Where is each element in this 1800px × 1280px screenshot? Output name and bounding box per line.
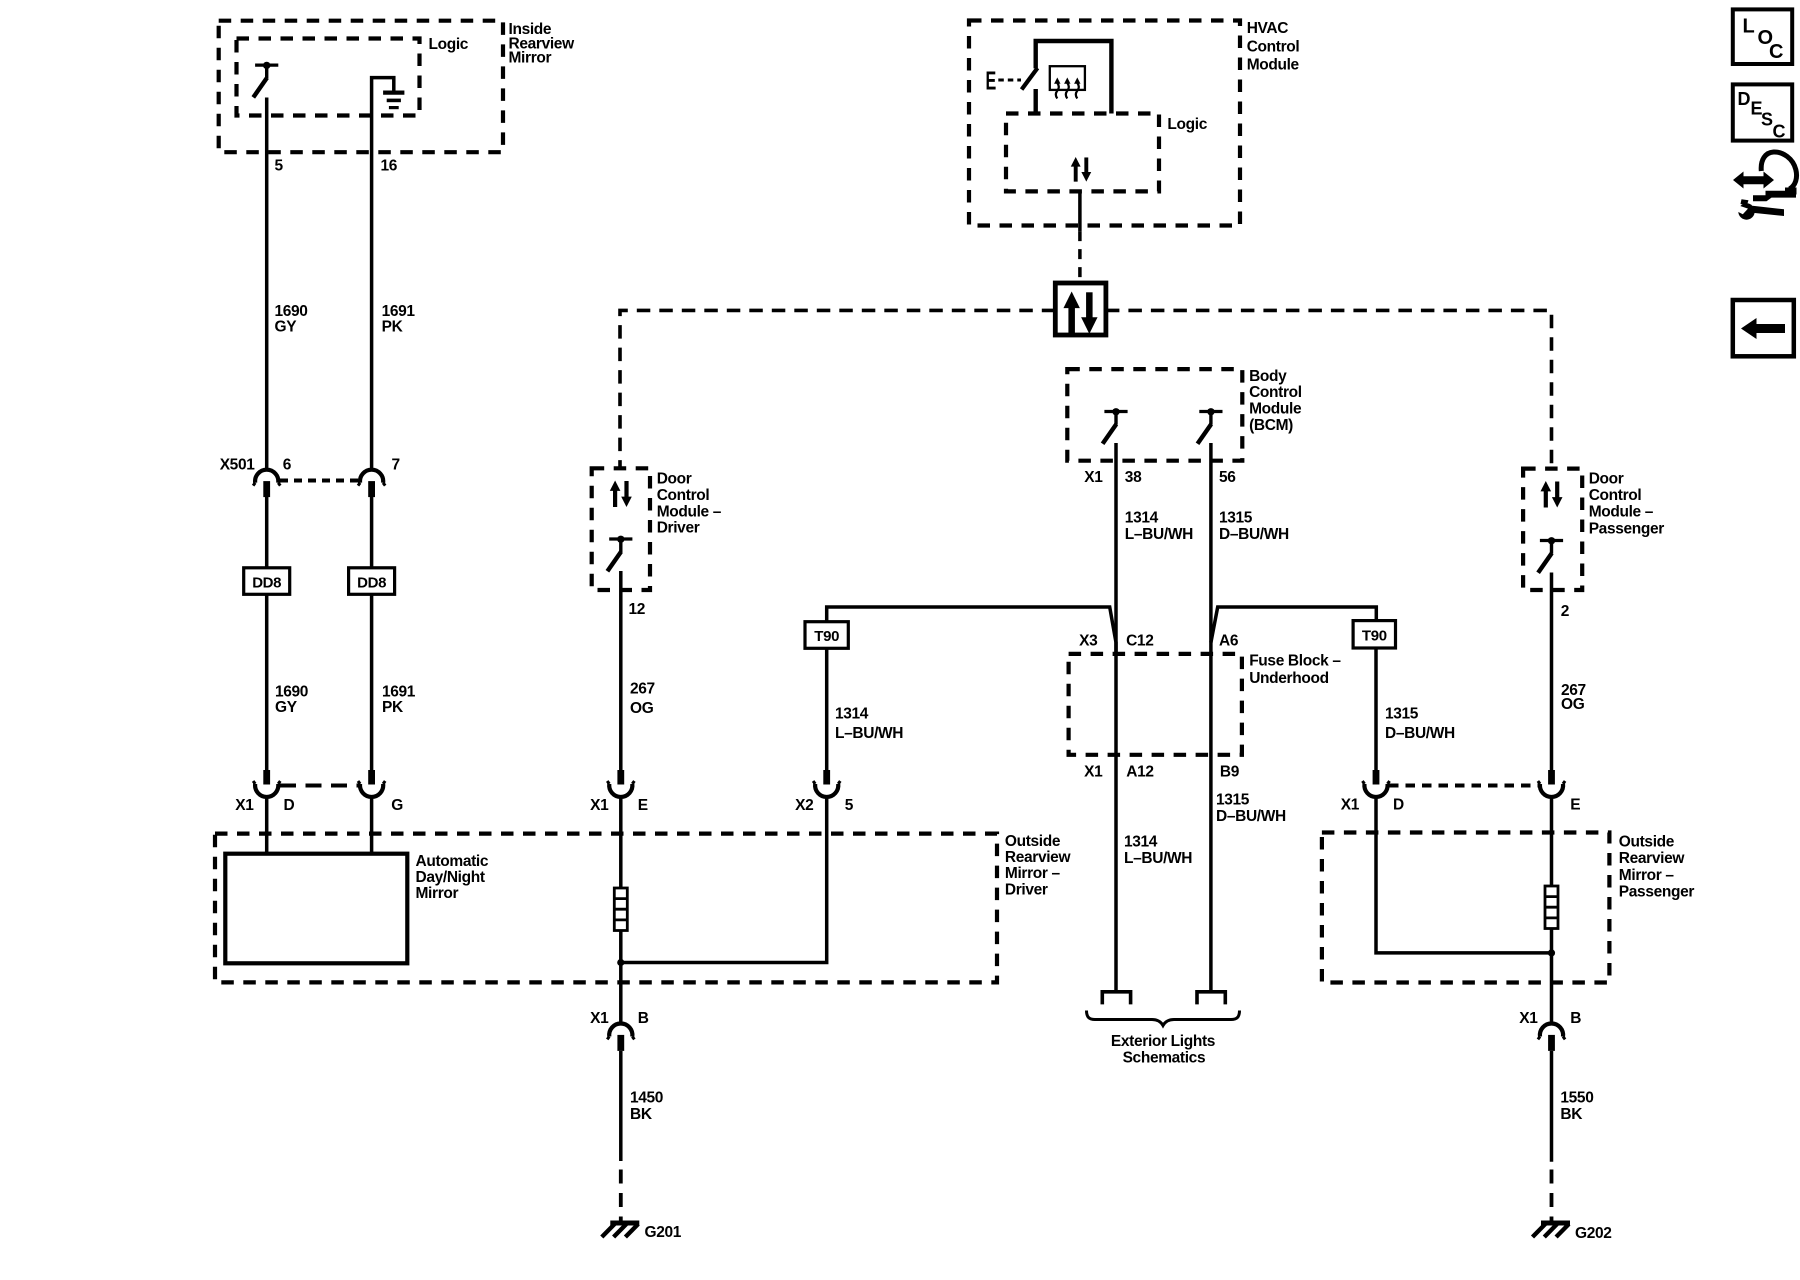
- svg-text:B9: B9: [1220, 764, 1240, 781]
- svg-text:D–BU/WH: D–BU/WH: [1385, 725, 1455, 742]
- dashed link between passenger X1 D and E: [1389, 784, 1538, 788]
- svg-text:GY: GY: [275, 699, 298, 716]
- svg-text:(BCM): (BCM): [1249, 417, 1293, 434]
- heater element (mirror driver): [614, 888, 627, 931]
- svg-text:Exterior Lights: Exterior Lights: [1111, 1033, 1215, 1050]
- svg-text:L–BU/WH: L–BU/WH: [1124, 850, 1192, 867]
- svg-text:267: 267: [630, 680, 655, 697]
- dashed serial data bus (left branch): [620, 310, 1055, 468]
- wire: bus from fuse block A6 to T90 passenger: [1211, 607, 1376, 643]
- switch inside HVAC + feed loop: [1022, 41, 1112, 114]
- switch (DCM passenger): [1538, 537, 1563, 573]
- pin 12 label: [629, 601, 646, 618]
- pin 2 label (DCM passenger): [1561, 603, 1569, 620]
- svg-text:E: E: [986, 65, 997, 95]
- wire label 1314 L-BU/WH (below fuse block): [1124, 834, 1192, 868]
- svg-text:Mirror –: Mirror –: [1619, 867, 1675, 884]
- connector X1-D (automatic mirror): [235, 770, 294, 814]
- heated grid icon (HVAC): [1050, 66, 1085, 98]
- svg-text:Underhood: Underhood: [1249, 670, 1329, 687]
- connector X501 pin 7: [358, 457, 400, 498]
- svg-text:Body: Body: [1249, 368, 1287, 385]
- svg-text:1314: 1314: [835, 706, 869, 723]
- svg-text:X1: X1: [1341, 797, 1360, 814]
- pin label E (HVAC internal): [986, 65, 997, 95]
- svg-text:1315: 1315: [1219, 510, 1253, 527]
- inline connector T90 (driver): [805, 622, 848, 649]
- wire: X1-D passenger into mirror to junction: [1376, 797, 1552, 953]
- svg-text:D: D: [1393, 797, 1404, 814]
- svg-text:Rearview: Rearview: [1619, 850, 1686, 867]
- component: Automatic Day/Night Mirror: [225, 853, 489, 964]
- dashed link between X501 terminals: [280, 479, 359, 483]
- svg-text:38: 38: [1125, 469, 1142, 486]
- svg-text:16: 16: [381, 158, 398, 175]
- wire: circuit 267 OG passenger: [1550, 573, 1554, 771]
- svg-text:Passenger: Passenger: [1619, 883, 1695, 900]
- svg-text:2: 2: [1561, 603, 1569, 620]
- svg-text:OG: OG: [1561, 696, 1585, 713]
- svg-text:Module: Module: [1247, 57, 1300, 74]
- connector X2-5 (mirror driver): [795, 770, 854, 814]
- svg-text:Day/Night: Day/Night: [416, 869, 485, 886]
- wire label 1315 D-BU/WH (below fuse block): [1216, 792, 1286, 826]
- wire: circuit 267 OG from DCM driver pin 12: [619, 571, 623, 770]
- ground G201: [602, 1223, 682, 1241]
- svg-text:X1: X1: [1084, 469, 1103, 486]
- wire label 1315 D-BU/WH (passenger branch): [1385, 706, 1455, 743]
- svg-text:Driver: Driver: [657, 520, 700, 537]
- svg-text:A12: A12: [1126, 764, 1153, 781]
- svg-text:Mirror: Mirror: [509, 50, 552, 67]
- wire label 1691 PK (upper): [382, 303, 416, 336]
- wire: circuit 1690 from IRM pin 5 to connector X501-6: [265, 98, 269, 469]
- svg-text:Rearview: Rearview: [1005, 849, 1072, 866]
- svg-text:T90: T90: [814, 628, 839, 645]
- svg-text:HVAC: HVAC: [1247, 20, 1289, 37]
- wire label 267 OG (passenger): [1561, 682, 1586, 713]
- pin labels X1 38 56 (BCM): [1084, 469, 1236, 486]
- module box: outside rearview mirror driver / automatic day-night mirror: [215, 833, 1071, 983]
- svg-text:X1: X1: [1084, 764, 1103, 781]
- connector X1-B (mirror driver): [590, 1010, 649, 1051]
- wire label 1690 GY (lower): [275, 684, 308, 717]
- svg-text:Driver: Driver: [1005, 881, 1048, 898]
- serial data icon (DCM driver): [610, 481, 632, 508]
- svg-text:DD8: DD8: [357, 574, 386, 591]
- wire: X1-D into mirror: [265, 797, 269, 853]
- svg-text:G: G: [391, 797, 403, 814]
- wire label 1314 L-BU/WH (BCM): [1125, 510, 1193, 544]
- svg-text:C: C: [1773, 122, 1786, 142]
- back arrow reference box: [1733, 300, 1794, 356]
- dashed ground lead (driver): [619, 1170, 623, 1222]
- svg-text:Automatic: Automatic: [416, 853, 489, 870]
- svg-text:Control: Control: [1589, 487, 1642, 504]
- connector X1-B (mirror passenger): [1519, 1010, 1581, 1051]
- svg-text:C12: C12: [1126, 633, 1153, 650]
- svg-text:Mirror: Mirror: [416, 885, 459, 902]
- svg-text:L: L: [1743, 16, 1755, 38]
- svg-text:X3: X3: [1079, 633, 1098, 650]
- svg-text:PK: PK: [382, 699, 404, 716]
- pin 5 label (IRM): [275, 158, 284, 175]
- serial data link box: [1055, 283, 1106, 335]
- connector X1-D (mirror passenger): [1341, 770, 1404, 814]
- wire: T90 passenger to X1-D: [1374, 648, 1378, 770]
- logic box (IRM): [237, 36, 469, 116]
- wire label 267 OG (driver): [630, 680, 655, 717]
- svg-text:5: 5: [275, 158, 284, 175]
- svg-text:1450: 1450: [630, 1089, 663, 1106]
- svg-text:1550: 1550: [1560, 1089, 1593, 1106]
- icon: data exchange arrow and wrench: [1733, 152, 1797, 220]
- inline connector DD8 (right): [349, 568, 395, 595]
- svg-text:Module: Module: [1249, 401, 1302, 418]
- svg-text:PK: PK: [382, 319, 404, 336]
- wire: junction to X2-5 branch: [621, 797, 827, 962]
- svg-text:C: C: [1769, 41, 1783, 63]
- svg-text:BK: BK: [630, 1106, 653, 1123]
- svg-text:B: B: [1570, 1010, 1581, 1027]
- svg-text:1690: 1690: [275, 684, 308, 701]
- svg-text:OG: OG: [630, 700, 654, 717]
- wire: 1691 between X501-7 and DD8: [370, 497, 374, 770]
- connector X1-G (automatic mirror): [358, 770, 403, 814]
- svg-text:X501: X501: [220, 457, 256, 474]
- DESC reference box: [1733, 84, 1792, 141]
- wire: circuit 1691 from IRM internal ground to connector X501-7: [372, 78, 394, 469]
- wire label 1315 D-BU/WH (BCM): [1219, 510, 1289, 544]
- svg-text:56: 56: [1219, 469, 1236, 486]
- svg-text:Control: Control: [1247, 38, 1300, 55]
- off-page connector (1314): [1102, 992, 1130, 1005]
- svg-text:E: E: [1570, 797, 1580, 814]
- serial data icon inside HVAC logic: [1071, 157, 1091, 182]
- svg-text:1314: 1314: [1125, 510, 1159, 527]
- pin 16 label (IRM): [381, 158, 398, 175]
- svg-text:X1: X1: [235, 797, 254, 814]
- connector X1-E (mirror driver): [590, 770, 648, 814]
- svg-text:1315: 1315: [1216, 792, 1250, 809]
- heater element (mirror passenger): [1545, 886, 1558, 929]
- dashed serial data bus (right branch): [1106, 310, 1552, 468]
- svg-text:L–BU/WH: L–BU/WH: [1125, 526, 1193, 543]
- serial data icon (DCM passenger): [1541, 481, 1563, 508]
- pin labels X1 A12 B9 (fuse block bottom): [1084, 764, 1240, 781]
- svg-text:12: 12: [629, 601, 646, 618]
- svg-text:Outside: Outside: [1619, 833, 1675, 850]
- svg-text:Module –: Module –: [1589, 503, 1654, 520]
- module box: Door Control Module - Driver: [592, 468, 722, 590]
- wire: X1-G into mirror: [370, 797, 374, 853]
- wire: element to junction to X1-B passenger: [1550, 929, 1554, 1023]
- svg-text:Outside: Outside: [1005, 833, 1061, 850]
- svg-text:Module –: Module –: [657, 503, 722, 520]
- svg-text:Door: Door: [1589, 471, 1624, 488]
- module box: Body Control Module (BCM): [1067, 368, 1302, 461]
- svg-text:Schematics: Schematics: [1123, 1050, 1206, 1067]
- svg-text:1690: 1690: [275, 303, 308, 320]
- module box: Outside Rearview Mirror - Passenger: [1322, 833, 1694, 983]
- switch (BCM right): [1198, 408, 1223, 444]
- logic box (HVAC): [1006, 114, 1208, 192]
- wire: T90 driver branch to X2-5: [825, 648, 829, 770]
- wire label 1550 BK: [1560, 1089, 1593, 1123]
- svg-text:A6: A6: [1219, 633, 1239, 650]
- inline connector DD8 (left): [244, 568, 290, 595]
- wire: circuit 1315 from BCM X1-56 to exterior lights: [1209, 443, 1213, 992]
- svg-text:BK: BK: [1560, 1106, 1583, 1123]
- svg-text:L–BU/WH: L–BU/WH: [835, 725, 903, 742]
- svg-text:E: E: [638, 797, 648, 814]
- svg-text:D–BU/WH: D–BU/WH: [1219, 526, 1289, 543]
- module box: Fuse Block - Underhood: [1069, 653, 1342, 755]
- svg-text:Logic: Logic: [429, 36, 469, 53]
- svg-text:D–BU/WH: D–BU/WH: [1216, 808, 1286, 825]
- dashed control line from E to switch: [998, 79, 1021, 82]
- switch (BCM left): [1103, 408, 1128, 444]
- inline connector T90 (passenger): [1353, 621, 1395, 648]
- junction node (mirror passenger): [1548, 949, 1555, 956]
- svg-text:Fuse Block –: Fuse Block –: [1249, 653, 1341, 670]
- svg-text:X1: X1: [590, 797, 609, 814]
- svg-text:7: 7: [392, 457, 400, 474]
- dashed link between X1 D and G: [280, 784, 360, 788]
- wire: X1-E into mirror to element: [619, 797, 623, 888]
- ground G202: [1533, 1223, 1612, 1242]
- svg-text:Passenger: Passenger: [1589, 521, 1665, 538]
- svg-text:T90: T90: [1362, 628, 1387, 645]
- svg-text:5: 5: [845, 797, 854, 814]
- ground symbol inside IRM logic: [383, 93, 404, 108]
- svg-text:1691: 1691: [382, 684, 416, 701]
- wire label 1450 BK: [630, 1089, 663, 1123]
- svg-text:Control: Control: [1249, 384, 1302, 401]
- svg-text:GY: GY: [275, 319, 298, 336]
- svg-text:1691: 1691: [382, 303, 416, 320]
- svg-text:G201: G201: [645, 1224, 682, 1241]
- wire: circuit 1450 BK: [619, 1051, 623, 1161]
- wire label 1314 L-BU/WH (driver branch): [835, 706, 903, 743]
- module box: Inside Rearview Mirror: [219, 21, 575, 153]
- svg-text:D: D: [1738, 89, 1751, 109]
- wire: logic to data link connector (solid then dashed): [1078, 191, 1082, 283]
- dashed ground lead (passenger): [1550, 1170, 1554, 1222]
- svg-text:D: D: [284, 797, 295, 814]
- pin labels X3 C12 A6 (fuse block top): [1079, 633, 1239, 650]
- svg-text:DD8: DD8: [252, 574, 281, 591]
- svg-text:Control: Control: [657, 487, 710, 504]
- svg-text:S: S: [1761, 110, 1773, 130]
- wire: bus from T90 driver to fuse block C12: [827, 607, 1116, 654]
- svg-text:G202: G202: [1575, 1225, 1612, 1242]
- svg-text:B: B: [638, 1010, 649, 1027]
- wire: circuit 1550 BK: [1550, 1051, 1554, 1162]
- LOC reference box: [1733, 9, 1792, 64]
- svg-text:6: 6: [283, 457, 292, 474]
- svg-text:1314: 1314: [1124, 834, 1158, 851]
- brace: exterior lights schematics: [1087, 1011, 1240, 1067]
- wire: X1-E passenger to element: [1550, 797, 1554, 886]
- wire: 1690 between X501-6 and DD8: [265, 497, 269, 770]
- svg-text:X1: X1: [1519, 1010, 1538, 1027]
- switch (DCM driver): [607, 536, 632, 572]
- svg-text:Door: Door: [657, 471, 692, 488]
- module box: Door Control Module - Passenger: [1523, 469, 1664, 590]
- junction node (mirror driver): [617, 959, 624, 966]
- svg-text:X2: X2: [795, 797, 813, 814]
- module box: HVAC Control Module: [969, 20, 1300, 226]
- wire label 1690 GY (upper): [275, 303, 308, 336]
- svg-text:Mirror –: Mirror –: [1005, 865, 1061, 882]
- svg-text:Logic: Logic: [1167, 116, 1207, 133]
- svg-text:1315: 1315: [1385, 706, 1419, 723]
- wire label 1691 PK (lower): [382, 684, 416, 717]
- off-page connector (1315): [1197, 992, 1225, 1005]
- connector X501 pin 6: [220, 457, 292, 498]
- wire: circuit 1314 from BCM X1-38 to exterior lights: [1114, 443, 1118, 992]
- connector X1-E (mirror passenger): [1538, 770, 1580, 814]
- switch inside IRM: [253, 62, 278, 98]
- wire: element to junction to X1-B: [619, 931, 623, 1023]
- svg-text:X1: X1: [590, 1010, 609, 1027]
